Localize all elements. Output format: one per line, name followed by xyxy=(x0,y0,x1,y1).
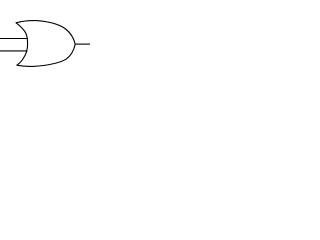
wire input A xyxy=(0,38,28,40)
or-gate U1 xyxy=(16,21,75,67)
wire output xyxy=(75,43,90,45)
wire input B xyxy=(0,50,28,52)
